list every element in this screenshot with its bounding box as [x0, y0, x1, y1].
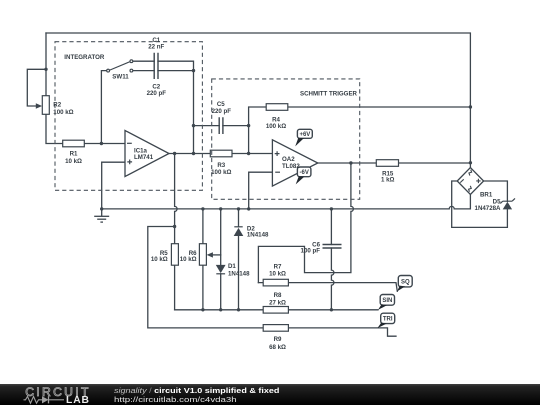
svg-text:R9: R9 [274, 336, 282, 343]
svg-text:D1: D1 [228, 263, 236, 270]
svg-text:100 pF: 100 pF [301, 247, 321, 254]
svg-text:C5: C5 [217, 101, 225, 108]
svg-text:BR1: BR1 [480, 192, 493, 199]
svg-text:22 nF: 22 nF [148, 43, 164, 50]
svg-text:220 pF: 220 pF [147, 90, 167, 97]
svg-text:10 kΩ: 10 kΩ [269, 271, 286, 278]
svg-text:LM741: LM741 [134, 154, 154, 161]
svg-text:27 kΩ: 27 kΩ [269, 300, 286, 307]
svg-text:+6V: +6V [299, 132, 310, 138]
svg-text:100 kΩ: 100 kΩ [211, 169, 231, 176]
svg-text:-6V: -6V [300, 170, 309, 176]
svg-text:220 pF: 220 pF [212, 108, 232, 115]
svg-text:SW11: SW11 [112, 74, 129, 81]
svg-text:R8: R8 [274, 292, 282, 299]
svg-text:1 kΩ: 1 kΩ [381, 177, 395, 184]
svg-text:TL082: TL082 [282, 163, 300, 170]
svg-text:INTEGRATOR: INTEGRATOR [64, 54, 105, 61]
svg-text:1N4148: 1N4148 [228, 271, 250, 278]
svg-text:TRI: TRI [383, 317, 393, 323]
svg-text:1N4148: 1N4148 [247, 232, 269, 239]
svg-text:10 kΩ: 10 kΩ [180, 256, 197, 263]
svg-text:R1: R1 [70, 151, 78, 158]
svg-text:1N4728A: 1N4728A [475, 205, 502, 212]
svg-text:R7: R7 [274, 263, 282, 270]
svg-text:10 kΩ: 10 kΩ [151, 256, 168, 263]
svg-text:68 kΩ: 68 kΩ [269, 344, 286, 351]
svg-text:SCHMITT TRIGGER: SCHMITT TRIGGER [300, 91, 358, 98]
svg-text:100 kΩ: 100 kΩ [53, 109, 73, 116]
svg-text:LAB: LAB [66, 395, 90, 405]
svg-text:SIN: SIN [382, 298, 392, 304]
svg-text:10 kΩ: 10 kΩ [65, 158, 82, 165]
svg-text:SQ: SQ [401, 279, 410, 285]
svg-text:100 kΩ: 100 kΩ [266, 123, 286, 130]
svg-text:R2: R2 [53, 101, 61, 108]
